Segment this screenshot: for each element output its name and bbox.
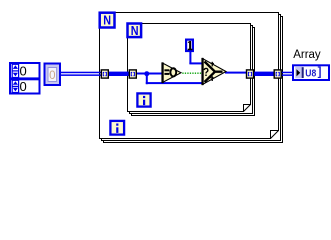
for-loop inner corner fold bbox=[244, 105, 251, 112]
svg-text:N: N bbox=[103, 13, 111, 28]
wire scalar inner-left tunnel to =0 node bbox=[135, 73, 162, 75]
svg-text:Array: Array bbox=[293, 49, 321, 61]
tunnel inner-right bbox=[247, 70, 254, 78]
wire branch horizontal to select f input bbox=[146, 82, 203, 84]
tunnel outer-left bbox=[101, 70, 108, 78]
wire select output to inner-right tunnel bbox=[225, 72, 247, 74]
wire 2D array from constant to outer tunnel bbox=[60, 72, 102, 76]
iteration terminal i outer bbox=[110, 121, 124, 135]
array constant element box bbox=[45, 64, 61, 86]
tunnel inner-left bbox=[129, 70, 136, 78]
count terminal N outer bbox=[100, 13, 115, 28]
array constant index spinner row2 bbox=[12, 80, 18, 92]
wire boolean dotted =0 to select bbox=[182, 72, 202, 74]
iteration terminal i inner bbox=[137, 93, 150, 106]
count terminal N inner bbox=[128, 23, 142, 38]
svg-text:0: 0 bbox=[20, 64, 27, 79]
tunnel outer-right bbox=[274, 70, 281, 78]
for-loop outer frame stack bbox=[100, 13, 283, 143]
array constant index frame bbox=[10, 63, 40, 94]
svg-text:U8: U8 bbox=[305, 67, 316, 79]
for-loop outer corner fold bbox=[271, 131, 279, 139]
svg-text:N: N bbox=[131, 23, 139, 38]
wire 1D inner-right tunnel to outer-right tunnel bbox=[253, 72, 275, 76]
wire junction dot bbox=[144, 71, 149, 76]
svg-text:]: ] bbox=[318, 67, 322, 79]
array constant index spinner row1 bbox=[12, 64, 18, 77]
wire 1D array outer-left tunnel to inner-left tunnel bbox=[107, 72, 130, 76]
svg-text:0: 0 bbox=[49, 70, 55, 82]
wire branch down from junction bbox=[146, 74, 148, 85]
svg-text:0: 0 bbox=[20, 79, 27, 94]
indicator terminal U8 array bbox=[293, 65, 329, 80]
constant 1 bbox=[186, 40, 193, 51]
equal-to-zero node bbox=[161, 62, 181, 83]
wire 2D outer-right tunnel to indicator bbox=[281, 72, 293, 76]
wire from 1 constant down bbox=[189, 51, 202, 64]
for-loop inner frame stack bbox=[128, 24, 255, 116]
select node bbox=[201, 58, 226, 85]
